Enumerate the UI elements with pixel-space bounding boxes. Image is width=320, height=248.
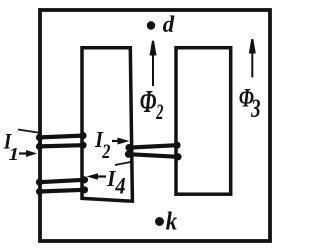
- current label I2: [95, 132, 103, 147]
- core window left: [82, 48, 132, 201]
- winding W2 turn 2: [125, 151, 182, 161]
- current label I4: [107, 171, 116, 186]
- current arrow I4: [87, 173, 107, 180]
- winding W4 turn 1: [36, 176, 88, 186]
- current label I1: [3, 134, 11, 149]
- current arrow I1: [19, 150, 37, 157]
- flux arrow Phi3: [249, 39, 256, 78]
- winding W1 turn 2: [36, 142, 87, 150]
- winding W1 lead: [18, 130, 41, 134]
- label Phi3: [239, 89, 253, 107]
- core window right: [176, 48, 231, 195]
- node d: [147, 21, 155, 29]
- winding W1 turn 1: [36, 132, 87, 141]
- core outer boundary: [40, 10, 270, 241]
- current arrow I2: [112, 138, 130, 145]
- winding W2 lead: [115, 162, 131, 165]
- label Phi2: [141, 91, 157, 112]
- winding W2 turn 1: [125, 142, 180, 152]
- winding W4 turn 2: [36, 186, 88, 195]
- flux arrow Phi2: [150, 41, 157, 86]
- node k: [155, 217, 164, 226]
